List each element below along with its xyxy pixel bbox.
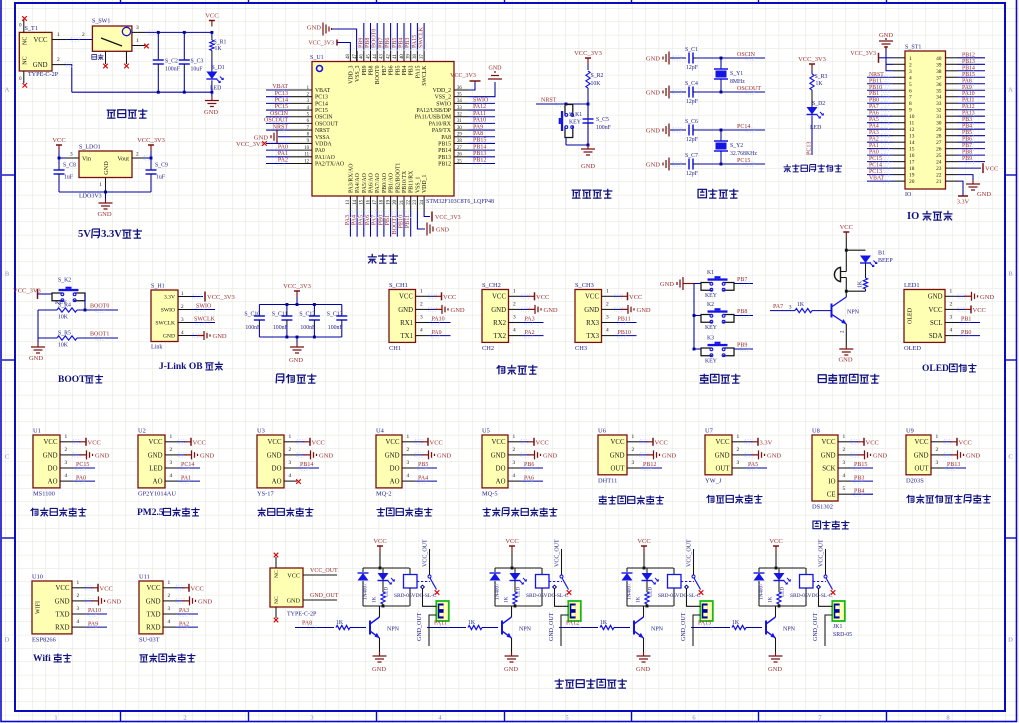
svg-text:PA7: PA7 <box>773 304 783 310</box>
svg-text:GND: GND <box>43 452 58 459</box>
svg-text:36: 36 <box>457 86 462 91</box>
svg-text:GND: GND <box>385 452 400 459</box>
LED S_D1 <box>206 72 217 80</box>
svg-text:PB11: PB11 <box>869 78 882 84</box>
svg-text:PB5: PB5 <box>962 130 972 136</box>
svg-text:8: 8 <box>909 101 912 107</box>
ground for power circuit <box>211 97 213 101</box>
svg-text:PA6: PA6 <box>524 475 534 481</box>
svg-text:GND: GND <box>966 452 980 459</box>
svg-text:3: 3 <box>289 460 292 466</box>
flame sensor U3 box <box>257 435 284 488</box>
relay LED resistor 1K (relay block 2) <box>514 581 516 592</box>
svg-text:GND: GND <box>103 161 110 175</box>
svg-text:33: 33 <box>936 101 942 107</box>
relay coil box (relay block 1) <box>409 568 411 575</box>
wifi module U10 box <box>32 581 72 634</box>
ground reset <box>587 145 589 149</box>
reset VCC_3V3 <box>587 58 589 64</box>
svg-text:NPN: NPN <box>651 627 664 633</box>
connector S_T1 pin NC top <box>23 20 25 33</box>
svg-text:4: 4 <box>843 473 846 479</box>
svg-text:PA2: PA2 <box>869 137 879 143</box>
svg-text:VBAT: VBAT <box>272 84 288 90</box>
svg-text:A: A <box>1008 87 1013 94</box>
svg-text:VCC: VCC <box>492 294 506 301</box>
svg-text:12pF: 12pF <box>686 65 699 71</box>
svg-text:GND: GND <box>148 452 163 459</box>
svg-text:VCC_3V3: VCC_3V3 <box>435 215 461 221</box>
svg-text:28: 28 <box>936 134 942 140</box>
svg-text:4: 4 <box>513 328 516 334</box>
svg-text:PC15: PC15 <box>737 158 750 164</box>
svg-text:4: 4 <box>420 328 423 334</box>
svg-text:GND: GND <box>267 452 282 459</box>
svg-text:VCC_3V3: VCC_3V3 <box>283 283 311 290</box>
junction filter vcc <box>296 303 299 306</box>
svg-text:AO: AO <box>272 479 282 486</box>
ground alarm <box>845 345 847 349</box>
alarm bottom rail <box>845 278 847 292</box>
svg-text:4: 4 <box>606 328 609 334</box>
svg-text:3: 3 <box>950 315 953 321</box>
svg-text:GND: GND <box>637 307 651 314</box>
svg-text:GP2Y1014AU: GP2Y1014AU <box>138 490 176 497</box>
ground for LDO <box>105 192 107 199</box>
ground relay (relay block 2) <box>511 652 513 656</box>
svg-text:VDD_1: VDD_1 <box>422 175 428 193</box>
svg-text:2: 2 <box>606 301 609 307</box>
svg-text:OSCOUT: OSCOUT <box>264 118 288 124</box>
jlink box <box>151 290 178 342</box>
svg-text:PB8: PB8 <box>365 38 371 48</box>
svg-text:PC14: PC14 <box>275 98 288 104</box>
svg-text:3: 3 <box>513 460 516 466</box>
svg-text:SWIO: SWIO <box>196 304 212 310</box>
mcu right pins 36-25 <box>454 89 468 91</box>
svg-text:GND: GND <box>289 357 303 364</box>
svg-text:PB15: PB15 <box>854 462 867 468</box>
svg-text:PA9: PA9 <box>432 330 442 336</box>
mcu right net labels <box>468 102 495 104</box>
svg-text:PB10/TX: PB10/TX <box>402 170 408 193</box>
svg-text:GND: GND <box>636 666 650 673</box>
relay LED resistor 1K (relay block 4) <box>778 581 780 592</box>
alarm LED resistor 1K <box>865 264 867 279</box>
ioport pin23 VCC <box>958 167 982 169</box>
svg-text:GND: GND <box>768 666 782 673</box>
svg-text:PB7: PB7 <box>962 143 972 149</box>
svg-text:2: 2 <box>420 301 423 307</box>
svg-text:PB10: PB10 <box>869 85 882 91</box>
svg-text:PA3: PA3 <box>179 608 189 614</box>
svg-text:1: 1 <box>170 434 173 440</box>
svg-text:SCL: SCL <box>930 320 942 327</box>
svg-text:1: 1 <box>99 182 102 188</box>
jlink pin4 GND <box>191 335 203 337</box>
svg-text:13: 13 <box>346 199 351 204</box>
title dht11 <box>599 496 607 504</box>
svg-text:1: 1 <box>843 434 846 440</box>
temp/humidity sensor U6 box <box>598 435 627 475</box>
title crystal circuit <box>698 189 706 197</box>
svg-text:3: 3 <box>737 460 740 466</box>
svg-text:29: 29 <box>457 133 462 138</box>
title smoke <box>377 508 385 517</box>
svg-text:31: 31 <box>457 119 462 124</box>
svg-text:PB15: PB15 <box>962 72 975 78</box>
junction Y2 top <box>720 129 723 132</box>
svg-text:PB3: PB3 <box>409 65 415 75</box>
svg-text:VCC_OUT: VCC_OUT <box>819 539 825 567</box>
svg-text:PA0: PA0 <box>869 150 879 156</box>
svg-text:VCC_3V3: VCC_3V3 <box>850 51 876 57</box>
svg-text:14: 14 <box>353 199 358 204</box>
svg-text:VCC_3V3: VCC_3V3 <box>207 294 235 301</box>
capacitor S_C13 <box>341 305 343 313</box>
svg-text:10K: 10K <box>591 81 602 87</box>
wire T1 GND down <box>67 65 72 93</box>
svg-text:C: C <box>5 454 9 461</box>
svg-text:NC: NC <box>23 37 29 45</box>
connector out NC bottom <box>275 607 277 618</box>
svg-text:PA2: PA2 <box>525 330 535 336</box>
svg-text:VSS_1: VSS_1 <box>415 176 421 193</box>
relay coil box (relay block 4) <box>805 568 807 575</box>
no-connect x on T1 top pin <box>22 16 27 21</box>
svg-text:45: 45 <box>366 54 371 59</box>
svg-text:30: 30 <box>457 126 462 131</box>
svg-text:U11: U11 <box>139 574 150 581</box>
svg-text:16: 16 <box>366 199 371 204</box>
switch bottom stub B <box>126 51 128 64</box>
svg-text:PB9: PB9 <box>962 156 972 162</box>
svg-text:12pF: 12pF <box>686 99 699 105</box>
svg-text:VDDA: VDDA <box>315 141 333 147</box>
svg-text:23: 23 <box>413 199 418 204</box>
key K1 <box>694 283 701 285</box>
wire D2 down <box>811 116 813 156</box>
relay LED (relay block 3) <box>646 568 648 573</box>
svg-text:PA2/TX/AO: PA2/TX/AO <box>315 161 344 167</box>
power VCC for LDO <box>58 145 60 151</box>
svg-text:D: D <box>1008 637 1013 644</box>
svg-text:38: 38 <box>413 54 418 59</box>
svg-text:PA0: PA0 <box>315 148 325 154</box>
svg-text:S_T1: S_T1 <box>25 25 38 32</box>
svg-text:PB0: PB0 <box>378 215 384 225</box>
svg-text:PC15: PC15 <box>869 156 882 162</box>
mcu bottom pins 13-24 <box>349 196 351 211</box>
relay vcc stem (relay block 1) <box>379 552 381 568</box>
svg-text:10: 10 <box>304 146 309 151</box>
svg-text:PB13: PB13 <box>438 155 451 161</box>
svg-text:PA9/TX: PA9/TX <box>432 128 452 134</box>
svg-text:1: 1 <box>136 38 139 44</box>
svg-text:GND: GND <box>715 452 730 459</box>
svg-text:3: 3 <box>181 317 184 323</box>
switch S_SW1 box <box>92 26 131 51</box>
svg-text:43: 43 <box>380 54 385 59</box>
svg-text:3: 3 <box>843 460 846 466</box>
svg-text:VCC: VCC <box>866 439 879 446</box>
svg-text:PB1/AO: PB1/AO <box>389 173 395 193</box>
svg-text:23: 23 <box>936 166 942 172</box>
svg-text:PA12: PA12 <box>962 104 975 110</box>
svg-text:6: 6 <box>909 88 912 94</box>
title power circuit <box>107 110 116 118</box>
svg-text:41: 41 <box>393 54 398 59</box>
svg-text:5V: 5V <box>78 229 91 240</box>
svg-text:KEY: KEY <box>569 120 582 126</box>
svg-text:S_C7: S_C7 <box>685 153 698 159</box>
resistor S_R5 <box>57 336 77 340</box>
junction at C3 tap <box>183 31 186 34</box>
alarm vcc stem <box>845 238 847 272</box>
relay collector wire (relay block 1) <box>379 606 381 617</box>
capacitor S_C10 <box>258 305 260 313</box>
svg-text:VDD_2: VDD_2 <box>433 88 451 94</box>
svg-text:PA4: PA4 <box>869 124 879 130</box>
svg-text:21: 21 <box>400 199 405 204</box>
svg-text:1: 1 <box>181 291 184 297</box>
relay transistor NPN (relay block 2) <box>501 621 503 635</box>
relay emitter wire (relay block 1) <box>379 638 381 652</box>
svg-text:DO: DO <box>48 465 58 472</box>
svg-text:PB8: PB8 <box>737 309 747 315</box>
switch pin 3 <box>132 31 145 33</box>
ioport right net labels <box>958 57 986 59</box>
svg-text:1N4007: 1N4007 <box>363 583 369 600</box>
svg-text:1: 1 <box>168 580 171 586</box>
LDO pin 2 Vout <box>132 157 145 159</box>
svg-text:VCC: VCC <box>100 585 113 592</box>
svg-text:PC14: PC14 <box>737 124 750 130</box>
svg-text:2: 2 <box>183 715 186 722</box>
junction C3 bottom <box>183 91 186 94</box>
svg-text:NPN: NPN <box>847 310 860 316</box>
ioport pins <box>893 57 905 59</box>
ioport pin22 GND <box>958 175 974 180</box>
svg-text:100nF: 100nF <box>273 325 289 331</box>
svg-text:PB0: PB0 <box>961 330 971 336</box>
svg-text:2: 2 <box>57 57 60 63</box>
svg-text:NRST: NRST <box>541 98 557 104</box>
connector S_T1 box <box>19 32 52 71</box>
alarm emitter wire <box>845 324 847 345</box>
svg-text:VCC_3V3: VCC_3V3 <box>13 288 41 295</box>
crystal S_Y1 <box>720 58 722 69</box>
svg-text:4: 4 <box>289 473 292 479</box>
svg-text:PB7: PB7 <box>382 65 388 75</box>
svg-text:Vin: Vin <box>82 156 91 163</box>
svg-text:OSCOUT: OSCOUT <box>315 121 339 127</box>
relay transistor NPN (relay block 1) <box>369 621 371 635</box>
relay switch contact (relay block 4) <box>817 585 821 589</box>
svg-text:VCC: VCC <box>840 224 853 231</box>
svg-text:S_C8: S_C8 <box>63 163 76 169</box>
relay coil box (relay block 3) <box>673 568 675 575</box>
svg-text:VCC: VCC <box>915 439 929 446</box>
svg-text:GND: GND <box>879 32 893 39</box>
svg-text:4: 4 <box>407 473 410 479</box>
svg-text:TX1: TX1 <box>401 333 413 340</box>
capacitor S_C6 <box>685 129 687 131</box>
alarm top rail <box>846 249 865 251</box>
svg-text:3: 3 <box>420 315 423 321</box>
LDO pin 1 GND <box>105 178 107 193</box>
svg-text:LED1: LED1 <box>904 282 920 289</box>
svg-text:GND_OUT: GND_OUT <box>813 612 819 641</box>
svg-text:PA10: PA10 <box>88 608 101 614</box>
capacitor S_C3 <box>183 32 185 56</box>
wire K3 to PB9 <box>734 348 753 350</box>
svg-text:ESP8266: ESP8266 <box>32 636 56 643</box>
OLED display module box <box>904 290 945 343</box>
svg-text:VSS_3: VSS_3 <box>355 65 361 82</box>
svg-text:VCC: VCC <box>822 439 836 446</box>
svg-text:J-Link OB: J-Link OB <box>159 362 203 372</box>
relay switch dashed link (relay block 2) <box>549 581 562 583</box>
svg-text:PA3: PA3 <box>525 317 535 323</box>
svg-text:SRD-05VDC-SL-C: SRD-05VDC-SL-C <box>790 593 833 599</box>
svg-text:JK1: JK1 <box>833 624 842 630</box>
svg-text:VCC: VCC <box>373 538 386 545</box>
svg-text:KEY: KEY <box>705 359 718 365</box>
svg-text:32: 32 <box>457 113 462 118</box>
svg-text:1: 1 <box>737 434 740 440</box>
svg-text:B1: B1 <box>878 251 885 257</box>
svg-text:VCC: VCC <box>505 538 518 545</box>
svg-text:3: 3 <box>936 460 939 466</box>
svg-text:1N4007: 1N4007 <box>495 583 501 600</box>
svg-text:NC: NC <box>274 570 280 578</box>
svg-text:PB4: PB4 <box>402 65 408 75</box>
svg-text:14: 14 <box>909 140 915 146</box>
svg-text:PB0/AO: PB0/AO <box>382 173 388 193</box>
svg-text:PB14: PB14 <box>300 462 313 468</box>
ground filter <box>296 337 298 343</box>
filter VCC_3V3 <box>296 291 298 297</box>
ioport pin21 3.3V <box>958 181 964 196</box>
svg-text:VCC: VCC <box>205 13 218 20</box>
svg-text:VDD_3: VDD_3 <box>348 65 354 83</box>
svg-text:PB10: PB10 <box>618 330 631 336</box>
svg-text:K1: K1 <box>707 270 714 276</box>
svg-text:MQ-5: MQ-5 <box>482 490 498 497</box>
flyback diode 1N4007 (relay block 3) <box>626 568 628 572</box>
svg-text:GND: GND <box>198 598 212 605</box>
svg-text:1: 1 <box>950 288 953 294</box>
svg-text:VCC: VCC <box>147 585 161 592</box>
svg-text:S_C10: S_C10 <box>244 312 260 318</box>
connector S_T1 pin NC bottom <box>23 71 25 83</box>
svg-text:PM2.5: PM2.5 <box>137 508 164 518</box>
svg-text:26: 26 <box>457 153 462 158</box>
relay VCC_OUT line (relay block 1) <box>429 549 431 575</box>
svg-text:MQ-2: MQ-2 <box>376 490 392 497</box>
svg-text:SRD-05VDC-SL-C: SRD-05VDC-SL-C <box>526 593 569 599</box>
svg-text:48: 48 <box>346 54 351 59</box>
svg-text:15: 15 <box>909 147 915 153</box>
svg-text:PB11/RX: PB11/RX <box>409 170 415 193</box>
svg-text:1: 1 <box>606 288 609 294</box>
svg-text:PB14: PB14 <box>473 144 486 150</box>
svg-text:20: 20 <box>393 199 398 204</box>
svg-text:OLED: OLED <box>904 345 921 352</box>
svg-text:OSCOUT: OSCOUT <box>737 86 761 92</box>
switch bottom stub A <box>105 51 107 64</box>
svg-text:S_ST1: S_ST1 <box>905 45 921 51</box>
relay vcc stem (relay block 2) <box>511 552 513 568</box>
svg-text:S_C11: S_C11 <box>272 312 288 318</box>
runled VCC_3V3 <box>811 64 813 70</box>
svg-text:VBAT: VBAT <box>315 88 331 94</box>
svg-text:GND_OUT: GND_OUT <box>310 593 339 599</box>
svg-text:TXD: TXD <box>56 611 70 618</box>
relay out connector (relay block 1) <box>436 601 449 621</box>
svg-text:46: 46 <box>360 54 365 59</box>
svg-text:VCC: VCC <box>88 439 101 446</box>
svg-text:1: 1 <box>54 715 57 722</box>
svg-text:PA12/USB/DP: PA12/USB/DP <box>416 108 451 114</box>
wire Vout to VCC_3V3 <box>145 157 151 159</box>
svg-text:42: 42 <box>386 54 391 59</box>
svg-text:U3: U3 <box>257 428 265 435</box>
svg-text:GND: GND <box>838 357 852 364</box>
svg-text:PB2/BOOT1: PB2/BOOT1 <box>395 163 401 193</box>
svg-text:3.3V: 3.3V <box>164 295 175 301</box>
svg-text:IO: IO <box>905 192 912 198</box>
relay out connector (relay block 2) <box>568 601 581 621</box>
svg-text:PC14: PC14 <box>181 462 194 468</box>
svg-text:17: 17 <box>909 160 915 166</box>
svg-text:VCC: VCC <box>585 294 599 301</box>
svg-text:VCC: VCC <box>312 439 325 446</box>
svg-text:PA2: PA2 <box>278 158 288 164</box>
svg-text:GND: GND <box>307 25 321 32</box>
svg-text:GND: GND <box>33 62 48 69</box>
svg-text:PA7/AO: PA7/AO <box>375 173 381 193</box>
svg-text:VCC: VCC <box>655 439 668 446</box>
capacitor S_C1 <box>685 57 687 59</box>
svg-text:3: 3 <box>407 460 410 466</box>
svg-text:34: 34 <box>936 95 942 101</box>
relay switch arm (relay block 2) <box>560 575 563 578</box>
svg-text:AO: AO <box>48 479 58 486</box>
svg-text:10K: 10K <box>58 315 69 321</box>
relay LED (relay block 2) <box>514 568 516 573</box>
wire VCC to Vin <box>58 151 60 158</box>
no-connect x out bottom <box>274 618 279 623</box>
svg-text:S_LDO1: S_LDO1 <box>79 145 101 151</box>
svg-text:40: 40 <box>936 56 942 62</box>
key S_K1 <box>559 105 574 138</box>
svg-text:10K: 10K <box>58 343 69 349</box>
svg-text:VCC: VCC <box>287 573 300 580</box>
svg-text:2: 2 <box>289 447 292 453</box>
wire S_C4 to OSCOUT <box>696 91 765 93</box>
svg-text:LDO3V3: LDO3V3 <box>79 194 102 200</box>
svg-text:RX2: RX2 <box>493 320 506 327</box>
svg-text:GND: GND <box>319 452 333 459</box>
svg-text:IO: IO <box>907 211 919 222</box>
svg-text:VCC_3V3: VCC_3V3 <box>450 73 476 79</box>
svg-text:Vout: Vout <box>117 156 129 163</box>
svg-text:18: 18 <box>380 199 385 204</box>
svg-text:PA7: PA7 <box>372 215 378 225</box>
svg-text:VCC: VCC <box>399 294 413 301</box>
